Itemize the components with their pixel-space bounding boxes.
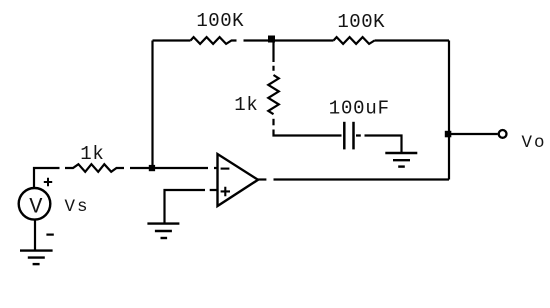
- svg-text:1k: 1k: [80, 143, 104, 165]
- node: output junction: [445, 131, 452, 138]
- resistor R3 1k (input): [65, 164, 124, 172]
- svg-text:100K: 100K: [337, 11, 385, 33]
- ground (op-amp plus input): [147, 224, 179, 238]
- resistor R1 100K: [191, 37, 237, 44]
- op-amp U1: [218, 154, 259, 206]
- V1 plus polarity mark: [44, 178, 52, 187]
- ground (source): [20, 251, 53, 265]
- wire: middle node down to R4: [272, 41, 274, 71]
- wire: R4 bottom lead: [272, 119, 274, 126]
- wire: source bottom to ground: [34, 220, 36, 251]
- svg-text:Vo: Vo: [522, 133, 547, 153]
- svg-text:1k: 1k: [234, 94, 258, 116]
- wire: C1 to ground: [356, 136, 402, 153]
- wire: middle node to R2: [272, 39, 334, 41]
- wire: source top to input resistor: [34, 168, 60, 188]
- resistor R2 100K: [334, 37, 375, 44]
- wire: output node to terminal: [451, 133, 498, 135]
- svg-text:V: V: [29, 194, 43, 219]
- ground (capacitor): [385, 153, 417, 167]
- node: feedback middle junction: [268, 36, 275, 43]
- node: inverting input junction: [149, 165, 155, 171]
- wire: op-amp plus input to ground: [165, 190, 218, 223]
- svg-text:Vs: Vs: [65, 197, 90, 217]
- U1 plus input mark: [221, 187, 230, 196]
- svg-text:100K: 100K: [196, 10, 244, 32]
- wire: right rail vertical: [448, 41, 450, 180]
- wire: top-left corner to R1: [153, 39, 191, 41]
- wire: output to right rail: [274, 178, 450, 180]
- wire: inverting node to op-amp minus input: [155, 167, 218, 169]
- wire: R2 to output right rail: [375, 39, 450, 41]
- wire: inverting node up to feedback row: [151, 41, 153, 169]
- voltage source V1 (Vs): [19, 188, 51, 220]
- V1 minus polarity mark: [46, 234, 53, 236]
- capacitor C1 100uF: [344, 122, 353, 150]
- wire: R3 to inverting node: [130, 167, 152, 169]
- wire: R1 to middle node: [244, 39, 272, 41]
- U1 minus input mark: [221, 168, 230, 170]
- terminal Vo (open circle): [499, 130, 507, 138]
- wire: R4 to capacitor C1: [274, 130, 342, 136]
- resistor R4 1k (vertical): [268, 75, 279, 114]
- wire: op-amp output lead: [258, 178, 266, 180]
- svg-text:100uF: 100uF: [329, 97, 390, 119]
